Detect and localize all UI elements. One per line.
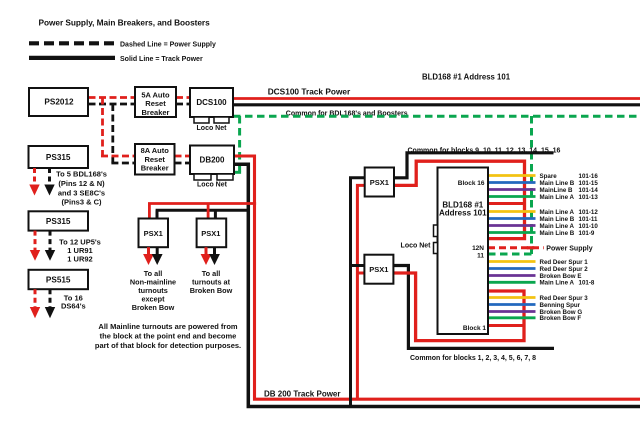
svg-text:PS315: PS315	[46, 153, 71, 162]
svg-text:Power Supply: Power Supply	[546, 246, 592, 253]
svg-text:Broken Bow: Broken Bow	[132, 303, 175, 312]
svg-text:Common for blocks 1, 2, 3, 4,: Common for blocks 1, 2, 3, 4, 5, 6, 7, 8	[410, 355, 536, 362]
svg-text:DCS100 Track Power: DCS100 Track Power	[268, 87, 351, 97]
svg-text:Breaker: Breaker	[141, 164, 169, 173]
svg-text:Reset: Reset	[144, 155, 165, 164]
svg-text:101-9: 101-9	[579, 230, 595, 237]
svg-text:Broken Bow: Broken Bow	[190, 286, 233, 295]
svg-text:Main Line A: Main Line A	[540, 223, 575, 230]
svg-text:Address 101: Address 101	[439, 208, 487, 217]
svg-text:Block 1: Block 1	[463, 325, 487, 332]
svg-text:Block 16: Block 16	[458, 180, 485, 187]
svg-text:DB 200 Track Power: DB 200 Track Power	[264, 390, 340, 399]
svg-text:DB200: DB200	[200, 156, 225, 165]
svg-text:Main Line B: Main Line B	[540, 216, 575, 223]
svg-text:Solid Line = Track Power: Solid Line = Track Power	[120, 56, 203, 63]
svg-text:PSX1: PSX1	[369, 265, 388, 274]
svg-text:PS315: PS315	[46, 217, 71, 226]
svg-text:part of that block for detecti: part of that block for detection purpose…	[95, 341, 241, 350]
svg-text:BLD168 #1 Address 101: BLD168 #1 Address 101	[422, 72, 511, 81]
svg-text:Benning Spur: Benning Spur	[540, 302, 581, 309]
svg-text:Main Line A: Main Line A	[540, 280, 575, 287]
svg-text:Loco Net: Loco Net	[197, 125, 228, 132]
svg-text:To 5 BDL168's: To 5 BDL168's	[56, 170, 107, 179]
svg-text:Red Deer Spur 1: Red Deer Spur 1	[540, 259, 589, 266]
svg-text:Common for blocks 9, 10, 11, 1: Common for blocks 9, 10, 11, 12, 13, 14,…	[408, 147, 561, 154]
svg-text:101-16: 101-16	[579, 173, 599, 180]
svg-text:101-13: 101-13	[579, 194, 599, 201]
svg-text:101-11: 101-11	[579, 216, 598, 223]
svg-text:101-8: 101-8	[579, 280, 595, 287]
svg-text:PSX1: PSX1	[144, 229, 163, 238]
svg-text:5A Auto: 5A Auto	[141, 90, 170, 99]
svg-text:PS515: PS515	[46, 276, 71, 285]
svg-text:PSX1: PSX1	[370, 178, 389, 187]
svg-text:DCS100: DCS100	[196, 98, 227, 107]
svg-text:Red Deer Spur 3: Red Deer Spur 3	[540, 295, 589, 302]
svg-text:Broken Bow F: Broken Bow F	[540, 315, 582, 322]
svg-text:Main Line A: Main Line A	[540, 194, 575, 201]
svg-text:PS2012: PS2012	[44, 98, 74, 107]
svg-text:Power Supply, Main Breakers, a: Power Supply, Main Breakers, and Booster…	[39, 17, 211, 27]
svg-text:All Mainline turnouts are powe: All Mainline turnouts are powered from	[98, 322, 238, 331]
svg-text:Main Line B: Main Line B	[540, 180, 575, 187]
svg-text:8A Auto: 8A Auto	[141, 146, 170, 155]
svg-text:PSX1: PSX1	[201, 229, 220, 238]
svg-text:(Pins3 & C): (Pins3 & C)	[61, 198, 102, 207]
svg-text:Loco Net: Loco Net	[197, 182, 228, 189]
svg-text:11: 11	[477, 252, 484, 259]
svg-text:Breaker: Breaker	[142, 108, 170, 117]
svg-text:(Pins 12 & N): (Pins 12 & N)	[58, 179, 105, 188]
svg-text:101-14: 101-14	[579, 187, 599, 194]
svg-text:Main Line B: Main Line B	[540, 230, 575, 237]
svg-text:Loco Net: Loco Net	[401, 242, 432, 249]
svg-text:DS64's: DS64's	[61, 301, 86, 310]
svg-text:Spare: Spare	[540, 173, 558, 180]
svg-text:MainLine B: MainLine B	[540, 187, 574, 194]
svg-text:the block at the point end and: the block at the point end and become	[100, 332, 237, 341]
svg-text:Main Line A: Main Line A	[540, 209, 575, 216]
svg-text:101-15: 101-15	[579, 180, 599, 187]
svg-text:and 3 SE8C's: and 3 SE8C's	[58, 189, 105, 198]
svg-text:Red Deer Spur 2: Red Deer Spur 2	[540, 266, 589, 273]
svg-text:1 UR92: 1 UR92	[67, 254, 92, 263]
svg-text:101-12: 101-12	[579, 209, 599, 216]
svg-text:101-10: 101-10	[579, 223, 599, 230]
svg-text:12N: 12N	[472, 245, 484, 252]
svg-text:Reset: Reset	[145, 99, 166, 108]
svg-text:Dashed Line = Power Supply: Dashed Line = Power Supply	[120, 41, 216, 48]
